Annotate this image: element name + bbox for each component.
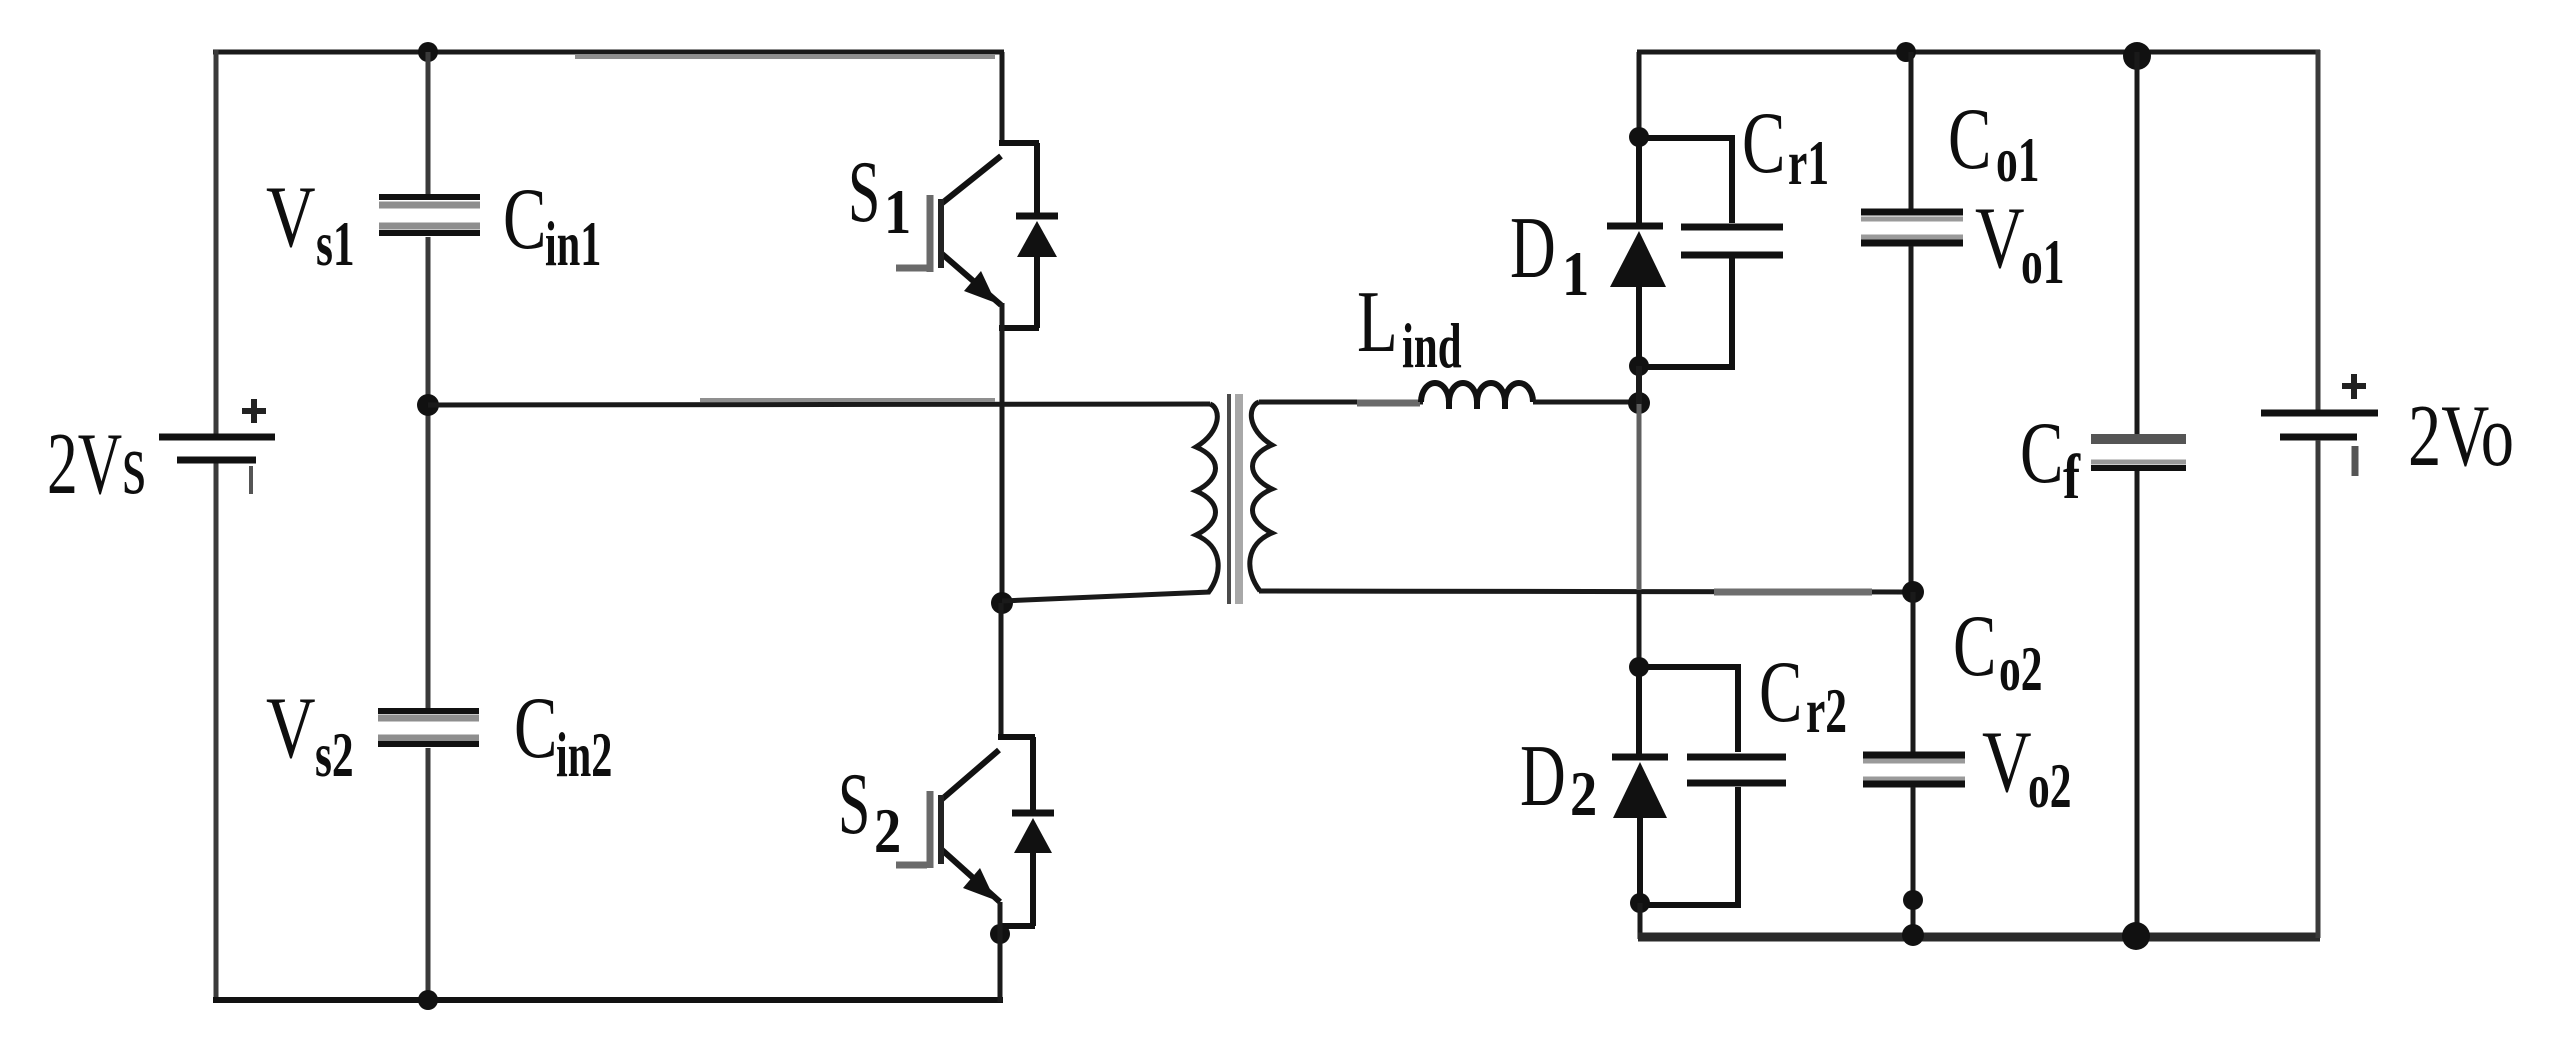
label C_r2 — [1759, 643, 1847, 746]
svg-text:V: V — [266, 680, 316, 777]
node D2 anode junction — [1630, 893, 1650, 913]
svg-text:2Vs: 2Vs — [47, 416, 146, 513]
transformer core — [1229, 394, 1239, 604]
diode S1 antiparallel — [1016, 143, 1058, 328]
svg-text:C: C — [2020, 404, 2063, 502]
node center tap — [1902, 581, 1924, 603]
svg-text:1: 1 — [1562, 238, 1589, 309]
battery 2Vs — [159, 399, 275, 494]
svg-text:in2: in2 — [556, 719, 612, 790]
diode D1 — [1607, 137, 1666, 367]
label V_o1 — [1975, 190, 2065, 297]
wire secondary bottom rail (center tap) — [1259, 591, 1915, 592]
wire D-branch top — [1637, 52, 1642, 140]
label D2 — [1520, 727, 1597, 829]
wire C_in branch upper — [426, 52, 431, 195]
svg-text:f: f — [2063, 441, 2081, 513]
svg-text:2: 2 — [1570, 758, 1597, 829]
wire top-left rail — [213, 52, 1004, 57]
node divider midpoint — [417, 394, 439, 416]
node bottom divider — [418, 990, 438, 1010]
svg-text:V: V — [1975, 190, 2025, 287]
node Cr1 bottom junction — [1629, 356, 1649, 376]
label C_in2 — [514, 679, 612, 791]
svg-text:o2: o2 — [1999, 633, 2043, 704]
svg-text:L: L — [1357, 272, 1398, 370]
svg-text:D: D — [1510, 199, 1556, 297]
wire left vertical (source branch) — [214, 50, 219, 1002]
svg-text:o1: o1 — [2021, 226, 2065, 297]
svg-text:s1: s1 — [316, 208, 355, 279]
label C_f — [2020, 404, 2081, 513]
capacitor Cr2 — [1641, 667, 1786, 905]
svg-text:C: C — [514, 679, 557, 777]
svg-text:D: D — [1520, 727, 1566, 825]
transformer secondary winding — [1250, 402, 1272, 591]
wire S2 emitter to bottom rail — [998, 902, 1003, 1002]
capacitor C_f top node — [2123, 42, 2151, 70]
label 2Vo — [2408, 388, 2514, 485]
label D1 — [1510, 199, 1589, 309]
transistor S1 (IGBT) — [896, 143, 1039, 328]
label C_o2 — [1953, 597, 2043, 704]
node C_o2 lead — [1903, 890, 1923, 910]
svg-text:S: S — [838, 756, 870, 853]
svg-text:S: S — [848, 144, 880, 241]
inductor L_ind — [1421, 383, 1533, 409]
wire mid rail to transformer primary — [428, 400, 1210, 405]
svg-text:C: C — [1759, 643, 1802, 741]
wire D-branch bottom — [1638, 903, 1643, 939]
label V_o2 — [1982, 714, 2072, 821]
wire S2 collector — [999, 603, 1004, 740]
svg-text:r2: r2 — [1806, 675, 1847, 746]
label S2 — [838, 756, 901, 866]
label V_s1 — [266, 169, 355, 279]
node C_o1 top — [1896, 42, 1916, 62]
capacitor C_o2 — [1863, 592, 1965, 938]
svg-text:C: C — [503, 170, 546, 268]
svg-text:o1: o1 — [1996, 124, 2040, 195]
label C_r1 — [1742, 94, 1829, 198]
wire C_in branch lower — [426, 748, 431, 1002]
node top divider — [418, 42, 438, 62]
svg-text:2: 2 — [874, 795, 901, 866]
label C_o1 — [1948, 90, 2040, 195]
wire D-branch middle — [1636, 366, 1642, 668]
svg-text:V: V — [1982, 714, 2032, 811]
wire primary bottom lead — [1002, 592, 1210, 601]
wire 2Vo branch lower — [2316, 440, 2321, 938]
wire secondary top lead — [1259, 402, 1423, 403]
label 2Vs — [47, 416, 146, 513]
svg-text:1: 1 — [884, 176, 911, 247]
svg-text:V: V — [266, 169, 316, 266]
label S1 — [848, 144, 911, 247]
node C_o2 bottom — [1902, 924, 1924, 946]
svg-text:C: C — [1953, 597, 1996, 695]
label L_ind — [1357, 272, 1462, 381]
wire C_in branch middle — [426, 237, 431, 708]
capacitor Cr1 — [1641, 138, 1783, 367]
svg-text:C: C — [1948, 90, 1991, 188]
node A primary return junction — [991, 592, 1013, 614]
wire S1 emitter to node A — [1000, 303, 1005, 604]
diode S2 antiparallel — [1012, 737, 1054, 926]
svg-text:2Vo: 2Vo — [2408, 388, 2514, 485]
label C_in1 — [503, 170, 601, 280]
capacitor C_f — [2091, 52, 2186, 938]
diode D2 — [1612, 667, 1668, 903]
svg-text:C: C — [1742, 94, 1785, 192]
svg-text:r1: r1 — [1788, 127, 1829, 198]
node C_f bottom — [2122, 922, 2150, 950]
svg-text:o2: o2 — [2028, 750, 2072, 821]
svg-text:s2: s2 — [315, 719, 354, 790]
wire top-right rail — [1637, 50, 2320, 55]
node D1 cathode junction — [1629, 127, 1649, 147]
node S2 emitter diode junction — [990, 924, 1010, 944]
battery 2Vo — [2261, 374, 2378, 476]
label V_s2 — [266, 680, 354, 790]
node Cr2 top junction — [1629, 657, 1649, 677]
svg-text:ind: ind — [1402, 309, 1462, 381]
capacitor C_in1 — [379, 197, 480, 233]
transformer primary winding — [1196, 404, 1218, 593]
wire 2Vo branch upper — [2316, 50, 2321, 410]
capacitor C_o1 — [1861, 52, 1963, 594]
transistor S2 (IGBT) — [896, 737, 1035, 926]
svg-text:in1: in1 — [545, 208, 601, 279]
node L_ind junction on D branch — [1628, 392, 1650, 414]
wire bottom-left rail — [213, 997, 1003, 1003]
wire S1 collector from top rail — [1000, 52, 1005, 146]
wire bottom-right rail — [1638, 933, 2320, 942]
wire L_ind to rectifier node — [1533, 400, 1641, 405]
capacitor C_in2 — [378, 711, 479, 744]
